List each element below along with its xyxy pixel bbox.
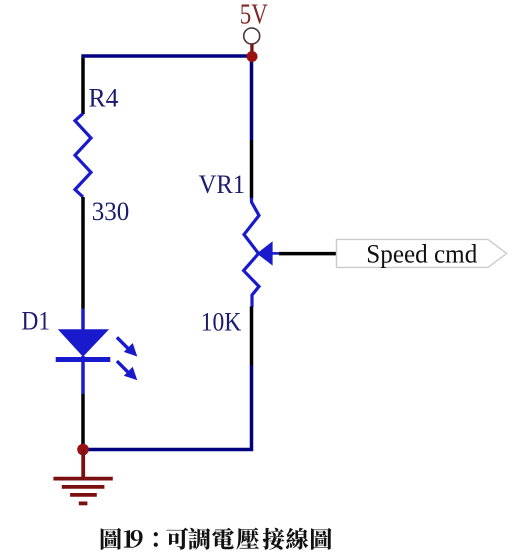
svg-text:330: 330 [92, 196, 130, 226]
svg-text:Speed cmd: Speed cmd [366, 239, 477, 268]
svg-text:R4: R4 [89, 83, 119, 113]
wire right vertical lower [81, 365, 251, 450]
wire top horizontal [81, 54, 253, 58]
wire to speed cmd [279, 252, 338, 256]
svg-text:D1: D1 [22, 306, 51, 336]
svg-text:VR1: VR1 [199, 169, 246, 199]
wire left vertical bottom [81, 394, 85, 450]
pin VR1 pin1 [250, 140, 254, 199]
LED light arrow 2 [117, 361, 137, 380]
svg-text:5V: 5V [240, 0, 268, 31]
power terminal stub [250, 44, 253, 53]
LED light arrow 1 [117, 337, 137, 356]
svg-text:10K: 10K [201, 307, 242, 337]
caption 圖19：可調電壓接線圖 [101, 528, 332, 550]
potentiometer VR1 [244, 198, 259, 308]
resistor R4 [75, 114, 91, 198]
LED D1 [56, 309, 111, 395]
pin VR1 pin2 [250, 307, 254, 366]
junction dot top [247, 51, 258, 62]
ground [53, 450, 112, 504]
potentiometer wiper arrow [257, 241, 281, 265]
wire left vertical upper [81, 58, 85, 114]
wire left vertical middle [81, 197, 85, 309]
power terminal circle [244, 28, 260, 44]
junction dot bottom [77, 444, 89, 456]
wire right vertical upper [250, 56, 254, 140]
offpage connector Speed cmd [337, 239, 507, 268]
